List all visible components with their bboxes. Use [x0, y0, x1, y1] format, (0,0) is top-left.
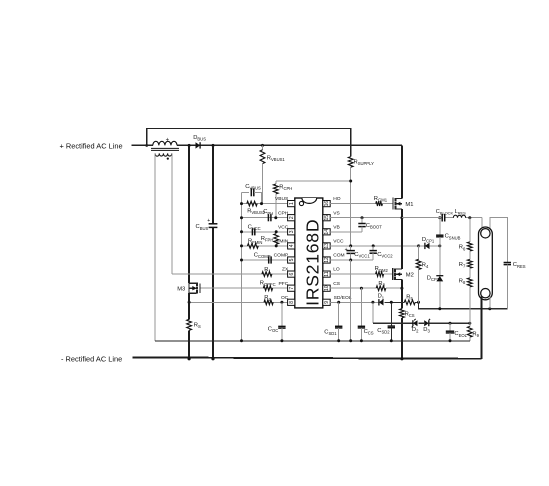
- wire M1 drain to bus: [401, 145, 403, 198]
- node COMP row junction: [240, 259, 243, 262]
- node bus / CBUS tap: [212, 144, 215, 147]
- resistor R3: [376, 281, 386, 291]
- pin 1 VBUS: [275, 196, 295, 207]
- node SD junctions: [337, 301, 340, 304]
- diode D2: [412, 319, 420, 334]
- svg-text:CBUS: CBUS: [196, 224, 209, 231]
- node charge pump A: [438, 244, 441, 247]
- pin 4 FMIN: [276, 239, 295, 250]
- pin 10 CS: [323, 281, 341, 292]
- svg-text:4: 4: [289, 244, 295, 247]
- node COM junction: [349, 259, 352, 262]
- svg-text:CBOOT: CBOOT: [366, 223, 382, 230]
- wire ZX row pin 6 from secondary winding: [172, 273, 288, 275]
- svg-text:LO: LO: [333, 267, 340, 273]
- svg-text:SD/EOL: SD/EOL: [334, 295, 352, 301]
- svg-text:R2: R2: [264, 295, 271, 302]
- capacitor CCOMP: [254, 252, 271, 263]
- node VCC junctions: [349, 244, 352, 247]
- wire lamp bottom right pin: [489, 296, 491, 308]
- capacitor COC: [268, 302, 286, 341]
- svg-text:R4: R4: [422, 262, 429, 269]
- svg-text:R3: R3: [378, 281, 385, 288]
- node FMIN row junctions: [240, 244, 243, 247]
- resistor RGM1: [374, 196, 388, 206]
- svg-text:CRES: CRES: [513, 262, 526, 269]
- wire M2 source to RCS: [401, 288, 403, 309]
- svg-text:2: 2: [289, 216, 295, 219]
- resistor RCPH: [273, 181, 292, 218]
- capacitor CVCC: [248, 225, 261, 236]
- wire return sense line: [419, 302, 508, 308]
- node ground rail junctions: [240, 339, 243, 342]
- wire secondary left leg down to signal ground rail: [154, 153, 156, 340]
- svg-text:PFC: PFC: [279, 281, 289, 287]
- svg-text:5: 5: [289, 258, 295, 261]
- node VBUS row junctions: [240, 202, 243, 205]
- wire M2 drain to VS node: [401, 218, 403, 269]
- node VCC row junctions: [240, 230, 243, 233]
- wire DC bus line to M1 drain: [177, 144, 402, 146]
- diode D3: [423, 319, 430, 334]
- svg-text:CVCC1: CVCC1: [354, 252, 370, 259]
- wire VS row pin 15: [330, 217, 402, 219]
- wire PFC row pin 7 from M3 gate: [200, 287, 287, 289]
- svg-text:DCP1: DCP1: [422, 237, 435, 244]
- svg-text:FMIN: FMIN: [276, 239, 288, 245]
- resistor R4: [416, 246, 429, 302]
- resistor R2: [264, 295, 273, 305]
- transistor M2 low side: [393, 268, 414, 280]
- pin 15 VS: [323, 210, 341, 221]
- pin 14 VB: [323, 224, 340, 235]
- svg-text:M1: M1: [405, 202, 413, 208]
- wire lamp bottom left to negative rail: [480, 297, 482, 359]
- capacitor CSNUB: [436, 218, 461, 246]
- svg-text:+ Rectified AC Line: + Rectified AC Line: [60, 142, 123, 151]
- wire lamp top right to CRES branch: [490, 218, 508, 262]
- svg-text:10: 10: [324, 285, 330, 291]
- node DCP2 anode on return line: [438, 307, 441, 310]
- node resonant divider tap: [468, 216, 471, 219]
- diode DCP1: [419, 237, 440, 249]
- wire SD/EOL row pin 9: [330, 301, 379, 303]
- capacitor CRES: [504, 262, 526, 309]
- capacitor CSD1: [324, 302, 342, 341]
- svg-text:13: 13: [324, 243, 330, 249]
- resistor RCS: [400, 309, 415, 359]
- svg-text:3: 3: [289, 230, 295, 233]
- pin 11 LO: [323, 267, 340, 278]
- svg-text:VS: VS: [333, 210, 340, 216]
- resistor RVBUS1: [260, 144, 285, 204]
- diode D1: [378, 294, 385, 306]
- wire CS row pin 10: [330, 287, 376, 289]
- wire top rail from rectified AC input to RSUPPLY: [147, 129, 351, 157]
- node DBUS anode / M3 drain tap: [188, 144, 191, 147]
- svg-text:14: 14: [324, 229, 330, 235]
- capacitor CEOL: [446, 323, 468, 341]
- svg-text:CSNUB: CSNUB: [445, 234, 461, 241]
- svg-text:VCC: VCC: [278, 224, 289, 230]
- wire M1 source to VS node: [401, 209, 403, 218]
- wire secondary right leg down to ZX row: [171, 153, 173, 274]
- capacitor CCS: [358, 288, 374, 341]
- svg-text:9: 9: [324, 301, 330, 304]
- wire CPH row pin 2: [242, 217, 288, 219]
- node VS junction half-bridge output: [400, 216, 403, 219]
- svg-text:16: 16: [324, 201, 330, 207]
- svg-text:M3: M3: [177, 287, 185, 293]
- svg-text:CSD2: CSD2: [377, 328, 390, 335]
- capacitor CVCC1 electrolytic: [345, 246, 371, 260]
- pin 13 VCC: [323, 239, 344, 250]
- pin 2 CPH: [278, 210, 295, 221]
- svg-text:RCPH: RCPH: [279, 185, 292, 192]
- svg-text:+: +: [166, 137, 170, 143]
- svg-text:COM: COM: [333, 253, 344, 259]
- diode DCP2: [427, 246, 444, 309]
- svg-text:R5: R5: [406, 294, 413, 301]
- node negative rail junctions: [188, 357, 191, 360]
- node lamp bottom right pin on return line: [488, 307, 491, 310]
- svg-text:+: +: [207, 218, 210, 224]
- svg-text:8: 8: [289, 301, 295, 304]
- capacitor CVCC2: [370, 246, 394, 260]
- node divider to EOL line: [468, 322, 471, 325]
- wire LO row pin 11: [330, 273, 375, 275]
- svg-text:RVBUS1: RVBUS1: [267, 156, 286, 163]
- wire negative rectified AC rail: [133, 357, 482, 358]
- node CS junctions: [360, 287, 363, 290]
- op-amp / IC U1 IRS2168D body: [295, 198, 323, 308]
- resistor R9: [467, 323, 479, 341]
- capacitor CVBUS: [242, 184, 262, 204]
- wire VCC row pin 13: [330, 245, 418, 247]
- svg-text:R7: R7: [459, 262, 466, 269]
- pin 12 COM: [323, 253, 345, 264]
- svg-text:IRS2168D: IRS2168D: [302, 219, 322, 306]
- wire OC row pin 8 from M3 source: [189, 301, 288, 303]
- svg-text:RFPH: RFPH: [261, 236, 274, 243]
- wire COM row pin 12: [330, 259, 373, 261]
- resistor RS: [187, 319, 201, 359]
- pin 6 ZX: [282, 267, 295, 278]
- svg-text:6: 6: [289, 272, 295, 275]
- transformer LPFC boost inductor with ZX secondary winding: [151, 137, 179, 159]
- lamp fluorescent tube: [479, 227, 493, 300]
- svg-text:CPH: CPH: [263, 209, 273, 216]
- svg-text:R9: R9: [472, 331, 479, 338]
- resistor divider R6 R7 R8 lamp voltage sense: [469, 218, 471, 242]
- svg-text:VBUS: VBUS: [275, 196, 289, 202]
- node CSNUB top: [438, 216, 441, 219]
- svg-text:CVCC: CVCC: [248, 225, 261, 232]
- node OC row junctions: [188, 301, 191, 304]
- svg-text:COC: COC: [268, 326, 278, 333]
- svg-text:CS: CS: [333, 281, 341, 287]
- wire half bridge output to lamp: [402, 217, 442, 219]
- wire M2 source down: [401, 279, 403, 288]
- svg-text:R8: R8: [459, 278, 466, 285]
- svg-text:DBUS: DBUS: [193, 135, 206, 142]
- wire VCC branch to RCPH: [276, 180, 351, 182]
- wire signal ground rail: [155, 340, 470, 342]
- svg-text:CVBUS: CVBUS: [245, 184, 261, 191]
- svg-text:RGM2: RGM2: [375, 266, 389, 273]
- svg-text:CBLOCK: CBLOCK: [436, 209, 454, 216]
- svg-text:CSD1: CSD1: [324, 329, 337, 336]
- pin 5 COMP: [274, 253, 295, 264]
- resistor RSUPPLY: [348, 157, 374, 246]
- resistor ROPFC: [260, 281, 276, 291]
- resistor RFMIN: [247, 239, 262, 249]
- node CPH row junctions: [240, 216, 243, 219]
- svg-text:VCC: VCC: [333, 239, 344, 245]
- node rectified AC input corner: [145, 144, 148, 147]
- resistor R1: [262, 267, 272, 277]
- wire COMP row pin 5: [242, 259, 288, 261]
- wire SD to EOL line drop: [372, 302, 374, 323]
- svg-text:CCS: CCS: [364, 329, 374, 336]
- resistor R7: [459, 259, 472, 268]
- svg-text:RGM1: RGM1: [374, 196, 388, 203]
- capacitor CBLOCK: [436, 209, 454, 222]
- wire left ground column: [241, 192, 243, 340]
- svg-text:DCP2: DCP2: [427, 275, 440, 282]
- transistor M3 PFC switch: [177, 283, 200, 294]
- svg-text:D3: D3: [423, 327, 430, 334]
- pin 7 PFC: [279, 281, 295, 292]
- svg-text:HO: HO: [333, 196, 341, 202]
- node CBOOT top: [361, 216, 364, 219]
- resistor R6: [459, 242, 472, 251]
- svg-text:CVCC2: CVCC2: [377, 252, 393, 259]
- svg-text:ZX: ZX: [282, 267, 289, 273]
- diode DBUS: [193, 135, 206, 149]
- svg-text:11: 11: [324, 271, 330, 276]
- wire divider down to EOL node: [469, 287, 471, 323]
- svg-text:D2: D2: [412, 327, 419, 334]
- svg-text:VB: VB: [333, 224, 340, 230]
- wire HO row pin 16: [330, 203, 376, 205]
- svg-text:OC: OC: [281, 295, 289, 301]
- resistor RFPH preheat: [261, 234, 279, 246]
- transistor M1 high side: [393, 198, 414, 210]
- resistor RVBUS2: [247, 201, 266, 215]
- resistor RGM2: [375, 266, 389, 276]
- wire COM ground drop: [350, 260, 352, 341]
- svg-text:RSUPPLY: RSUPPLY: [354, 160, 375, 167]
- svg-text:R1: R1: [264, 267, 271, 274]
- wire VBUS row pin 1: [242, 203, 288, 205]
- inductor LRES: [453, 209, 466, 218]
- svg-text:CPH: CPH: [278, 210, 289, 216]
- pin 16 HO: [323, 196, 341, 207]
- capacitor CBOOT: [358, 218, 382, 232]
- svg-text:D1: D1: [378, 294, 385, 301]
- capacitor CSD2: [377, 302, 395, 341]
- wire VCC row pin 3: [242, 231, 288, 233]
- wire + rectified AC line input: [132, 144, 153, 146]
- svg-text:12: 12: [324, 257, 330, 263]
- wire EOL sense line with D2 D3: [373, 322, 413, 324]
- capacitor CBUS electrolytic: [196, 145, 218, 358]
- svg-text:RS: RS: [194, 322, 201, 329]
- svg-text:+: +: [345, 247, 348, 253]
- resistor R8: [459, 278, 472, 287]
- svg-text:ROPFC: ROPFC: [260, 281, 276, 288]
- node CEOL tap: [449, 322, 452, 325]
- svg-text:CCOMP: CCOMP: [254, 252, 271, 259]
- svg-text:M2: M2: [406, 273, 414, 279]
- node RCPH tap on RSUPPLY line: [349, 180, 352, 183]
- pin 8 OC: [281, 295, 295, 306]
- svg-text:RCS: RCS: [405, 311, 415, 318]
- svg-text:15: 15: [324, 215, 330, 221]
- wire M3 drain-source vertical: [188, 283, 190, 293]
- svg-text:7: 7: [289, 287, 295, 290]
- svg-text:1: 1: [289, 202, 295, 205]
- svg-text:CEOL: CEOL: [454, 331, 467, 338]
- wire VB row pin 14: [330, 231, 362, 233]
- svg-text:- Rectified AC Line: - Rectified AC Line: [61, 355, 122, 364]
- svg-text:R6: R6: [459, 245, 466, 252]
- wire FMIN row pin 4: [242, 245, 288, 247]
- pin 9 SD/EOL: [323, 295, 352, 306]
- capacitor CPH: [263, 209, 273, 221]
- svg-text:COMP: COMP: [274, 253, 289, 259]
- resistor R5: [404, 294, 415, 304]
- svg-text:LRES: LRES: [455, 209, 467, 216]
- wire M3 drain vertical: [188, 145, 190, 283]
- pin 3 VCC: [278, 224, 295, 235]
